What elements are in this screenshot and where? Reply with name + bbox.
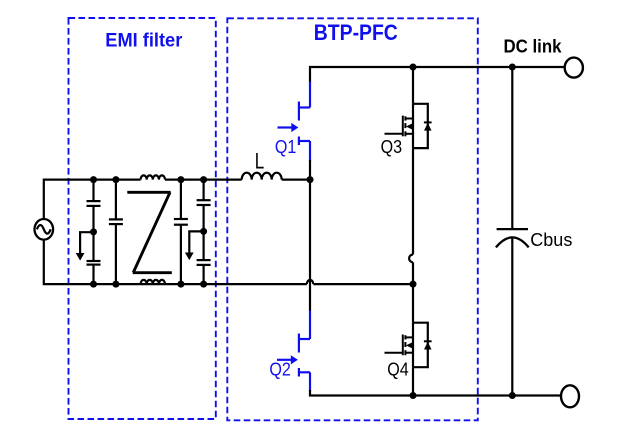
capacitor Cbus [496, 229, 529, 247]
gate arrow Q2 [291, 355, 298, 364]
svg-text:L: L [255, 148, 265, 173]
wire Cbus top [511, 67, 513, 229]
capacitor CY1 upper [87, 180, 101, 206]
wire ac source top to EMI input (top rail) [44, 180, 141, 220]
svg-text:Q1: Q1 [275, 137, 297, 157]
junction dot slow leg midpoint [410, 281, 417, 288]
junction dot CY1 mid [90, 228, 97, 235]
body arrow Q4 [406, 342, 412, 348]
ground GND1 [76, 232, 94, 260]
common mode choke Z core symbol [127, 192, 172, 272]
capacitor CX2 [174, 180, 188, 285]
EMI filter dashed box [69, 18, 216, 419]
capacitor CY2 upper [197, 180, 211, 205]
junction dot bottom rail Cbus [509, 392, 516, 399]
ac source V1 [35, 219, 54, 240]
body diode D3 [424, 122, 432, 130]
terminal DC+ [565, 58, 583, 78]
junction dot CY2 mid [200, 228, 207, 235]
svg-text:Q4: Q4 [387, 359, 409, 379]
BTP-PFC dashed box [227, 18, 477, 420]
wire Q1 source to switch node [309, 160, 311, 180]
terminal DC- [561, 385, 579, 407]
node switch-node dot (L to Q1/Q2 leg) [307, 176, 314, 183]
gate structure Q4 [385, 335, 414, 356]
inductor CM choke top winding [141, 175, 165, 179]
wire ac source bottom to crossing (bottom EMI rail) [44, 239, 307, 284]
ground GND2 [185, 231, 204, 260]
wire crossing to slow leg midpoint [313, 283, 413, 285]
body arrow Q3 [406, 123, 412, 129]
transistor Q2 (GaN) [277, 311, 310, 392]
wire switch node down to Q2 [309, 180, 311, 311]
inductor CM choke bottom winding [141, 280, 165, 284]
gate arrow Q1 [291, 123, 298, 132]
transistor Q3 (MOSFET) [413, 104, 428, 148]
wire slow leg top [412, 67, 414, 104]
svg-text:BTP-PFC: BTP-PFC [314, 20, 398, 45]
gate structure Q3 [385, 116, 414, 137]
transistor Q1 (GaN) [278, 82, 311, 162]
svg-text:DC link: DC link [504, 37, 563, 57]
wire Q2 source to bottom rail [310, 390, 561, 396]
wire slow leg middle with hook [409, 148, 413, 323]
capacitor CX1 [109, 180, 123, 285]
wire Cbus bottom [511, 237, 513, 395]
svg-text:Cbus: Cbus [530, 230, 572, 250]
wire top rail (positive DC bus) [310, 67, 565, 82]
capacitor CY2 lower [197, 205, 211, 284]
wire choke top to boost inductor [165, 179, 242, 181]
junction dots on EMI top rail [90, 176, 207, 183]
body diode D4 [424, 341, 432, 349]
transistor Q4 (MOSFET) [413, 323, 428, 368]
inductor L [242, 173, 282, 180]
wire hop over Q1-Q2 leg [307, 280, 314, 284]
junction dot bottom rail slow leg [410, 392, 417, 399]
wire inductor L to switch node [282, 179, 310, 181]
junction dot top rail Cbus [509, 64, 516, 71]
junction dot top rail slow leg [410, 64, 417, 71]
junction dots on EMI bottom rail [90, 281, 207, 288]
svg-text:EMI filter: EMI filter [105, 31, 183, 52]
wire slow leg bottom [412, 367, 414, 395]
svg-text:Q2: Q2 [269, 360, 291, 380]
capacitor CY1 lower [87, 206, 101, 284]
svg-text:Q3: Q3 [381, 137, 403, 157]
